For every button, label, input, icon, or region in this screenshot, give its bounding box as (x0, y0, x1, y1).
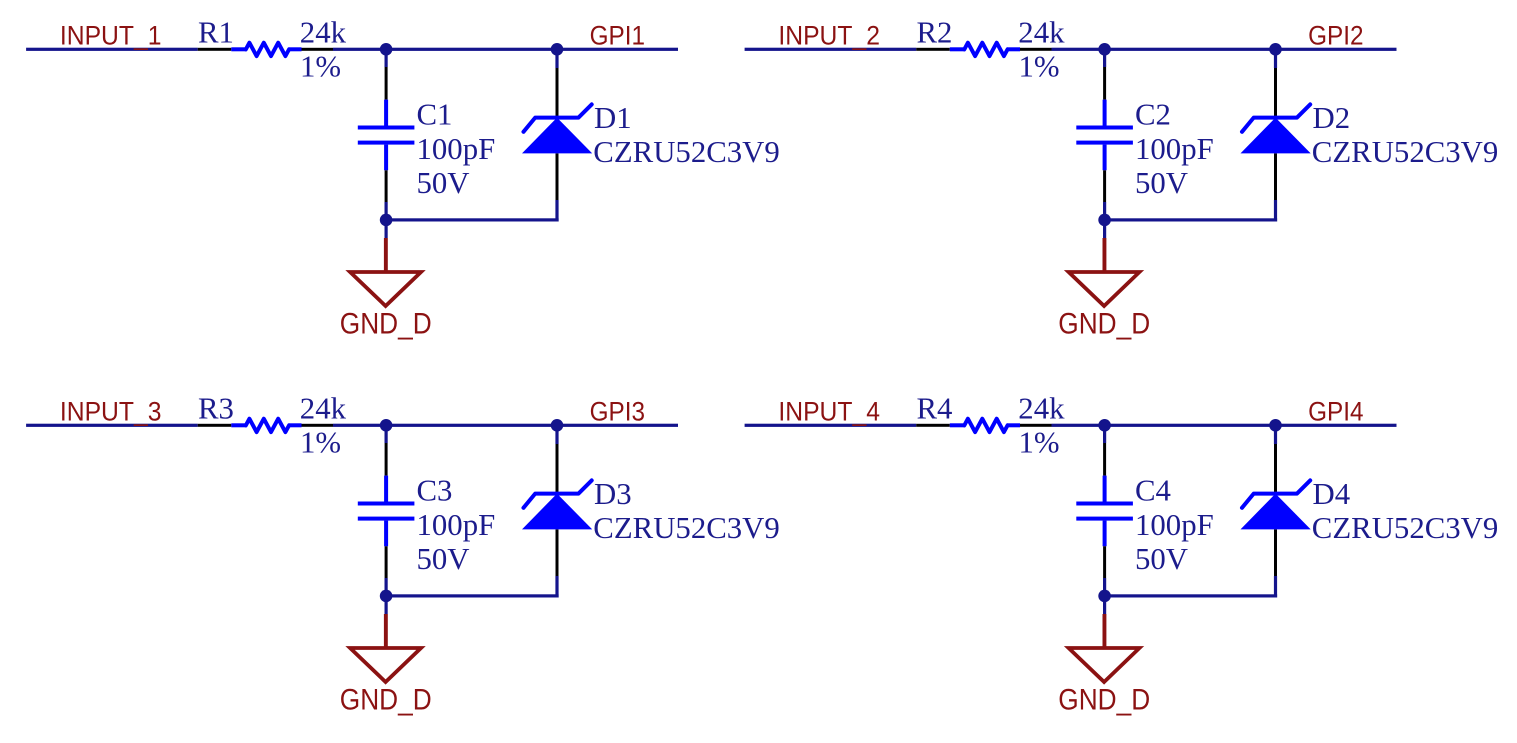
ground power port GND_D (340, 238, 432, 340)
junction ground node (1098, 590, 1111, 603)
wire C3 to ground node (385, 578, 388, 596)
svg-text:C3: C3 (417, 474, 453, 508)
wire D1 to ground wire (555, 200, 558, 222)
resistor R1 24k (198, 43, 333, 56)
R4 designator (917, 392, 953, 426)
svg-text:INPUT_4: INPUT_4 (778, 398, 880, 427)
svg-text:INPUT_3: INPUT_3 (60, 398, 162, 427)
wire node to C4 (1103, 425, 1106, 443)
R3 designator (198, 392, 234, 426)
svg-text:24k: 24k (1018, 392, 1065, 426)
svg-text:D1: D1 (594, 101, 632, 135)
wire ground node to GND_D port (385, 596, 388, 614)
svg-text:CZRU52C3V9: CZRU52C3V9 (1312, 511, 1499, 545)
wire D2 to ground wire (1274, 200, 1277, 222)
D2 designator (1313, 101, 1351, 135)
D2 value CZRU52C3V9 (1312, 135, 1499, 169)
capacitor C4 100pF (1076, 443, 1133, 578)
R4 value 24k (1018, 392, 1065, 426)
junction C3 tap (380, 419, 393, 432)
C2 rating 50V (1135, 166, 1188, 200)
junction ground node (380, 214, 393, 227)
D4 designator (1313, 477, 1351, 511)
R2 value 24k (1018, 16, 1065, 50)
svg-text:GPI3: GPI3 (590, 397, 645, 426)
wire ground node to D4 anode (1105, 594, 1278, 597)
svg-text:50V: 50V (1135, 166, 1188, 200)
net label GPI1 (590, 21, 645, 50)
svg-text:24k: 24k (300, 392, 347, 426)
wire node to C3 (385, 425, 388, 443)
ground power port GND_D (1058, 614, 1150, 716)
wire C4 to ground node (1103, 578, 1106, 596)
C2 value 100pF (1135, 132, 1214, 166)
svg-text:50V: 50V (417, 166, 470, 200)
wire node to D3 (555, 425, 558, 444)
svg-text:24k: 24k (1018, 16, 1065, 50)
junction C2 tap (1098, 43, 1111, 56)
wire ground node to GND_D port (1103, 220, 1106, 238)
svg-text:D4: D4 (1313, 477, 1351, 511)
wire node to D2 (1274, 49, 1277, 68)
wire node to node (386, 424, 557, 427)
net label GPI4 (1308, 397, 1363, 426)
wire node to GPI3 (557, 424, 678, 427)
R2 designator (917, 16, 953, 50)
junction ground node (1098, 214, 1111, 227)
wire D3 to ground wire (555, 576, 558, 598)
wire ground node to D2 anode (1105, 218, 1278, 221)
junction D4 tap (1269, 419, 1282, 432)
D4 value CZRU52C3V9 (1312, 511, 1499, 545)
wire R2 to node (1052, 48, 1105, 51)
zener diode D3 CZRU52C3V9 (522, 444, 592, 576)
C1 rating 50V (417, 166, 470, 200)
net label INPUT_4 (778, 398, 880, 427)
zener diode D1 CZRU52C3V9 (522, 68, 592, 200)
R2 tolerance 1% (1019, 50, 1060, 84)
wire C1 to ground node (385, 202, 388, 220)
svg-text:1%: 1% (300, 50, 341, 84)
wire ground node to D3 anode (386, 594, 558, 597)
wire node to GPI4 (1276, 424, 1397, 427)
svg-text:GPI4: GPI4 (1308, 397, 1363, 426)
svg-text:100pF: 100pF (417, 508, 496, 542)
svg-text:CZRU52C3V9: CZRU52C3V9 (593, 135, 780, 169)
svg-text:GND_D: GND_D (1058, 306, 1150, 340)
D3 designator (594, 477, 632, 511)
R1 designator (198, 16, 234, 50)
wire node to node (1105, 48, 1276, 51)
C4 designator (1135, 474, 1171, 508)
svg-text:1%: 1% (1019, 426, 1060, 460)
wire C2 to ground node (1103, 202, 1106, 220)
resistor R3 24k (198, 419, 333, 432)
wire INPUT_3 to R3 (26, 424, 198, 427)
svg-text:C2: C2 (1135, 98, 1171, 132)
C3 designator (417, 474, 453, 508)
D1 designator (594, 101, 632, 135)
junction D1 tap (551, 43, 564, 56)
ground power port GND_D (1058, 238, 1150, 340)
svg-text:GND_D: GND_D (340, 306, 432, 340)
junction C4 tap (1098, 419, 1111, 432)
svg-text:INPUT_1: INPUT_1 (60, 22, 162, 51)
capacitor C3 100pF (358, 443, 415, 578)
C3 value 100pF (417, 508, 496, 542)
svg-text:C4: C4 (1135, 474, 1171, 508)
svg-text:GPI2: GPI2 (1308, 21, 1363, 50)
svg-text:24k: 24k (300, 16, 347, 50)
resistor R2 24k (916, 43, 1051, 56)
svg-text:R4: R4 (917, 392, 953, 426)
wire D4 to ground wire (1274, 576, 1277, 598)
ground power port GND_D (340, 614, 432, 716)
net label GPI3 (590, 397, 645, 426)
D3 value CZRU52C3V9 (593, 511, 780, 545)
wire ground node to GND_D port (1103, 596, 1106, 614)
junction D2 tap (1269, 43, 1282, 56)
wire INPUT_1 to R1 (26, 48, 198, 51)
svg-text:50V: 50V (1135, 542, 1188, 576)
svg-text:50V: 50V (417, 542, 470, 576)
svg-text:D2: D2 (1313, 101, 1351, 135)
C4 rating 50V (1135, 542, 1188, 576)
svg-text:GND_D: GND_D (340, 682, 432, 716)
svg-text:R2: R2 (917, 16, 953, 50)
zener diode D2 CZRU52C3V9 (1241, 68, 1311, 200)
wire node to node (386, 48, 557, 51)
wire ground node to D1 anode (386, 218, 558, 221)
wire ground node to GND_D port (385, 220, 388, 238)
wire node to D1 (555, 49, 558, 68)
wire R3 to node (333, 424, 386, 427)
junction C1 tap (380, 43, 393, 56)
capacitor C2 100pF (1076, 67, 1133, 202)
capacitor C1 100pF (358, 67, 415, 202)
R1 tolerance 1% (300, 50, 341, 84)
wire node to C2 (1103, 49, 1106, 67)
svg-text:CZRU52C3V9: CZRU52C3V9 (1312, 135, 1499, 169)
wire node to node (1105, 424, 1276, 427)
wire node to D4 (1274, 425, 1277, 444)
net label INPUT_3 (60, 398, 162, 427)
net label INPUT_1 (60, 22, 162, 51)
wire node to C1 (385, 49, 388, 67)
C2 designator (1135, 98, 1171, 132)
net label INPUT_2 (778, 22, 880, 51)
zener diode D4 CZRU52C3V9 (1241, 444, 1311, 576)
junction D3 tap (551, 419, 564, 432)
svg-text:1%: 1% (1019, 50, 1060, 84)
junction ground node (380, 590, 393, 603)
wire R4 to node (1052, 424, 1105, 427)
svg-text:1%: 1% (300, 426, 341, 460)
svg-text:R1: R1 (198, 16, 234, 50)
svg-text:100pF: 100pF (1135, 132, 1214, 166)
wire node to GPI1 (557, 48, 678, 51)
svg-text:C1: C1 (417, 98, 453, 132)
C3 rating 50V (417, 542, 470, 576)
svg-text:INPUT_2: INPUT_2 (778, 22, 880, 51)
resistor R4 24k (916, 419, 1051, 432)
svg-text:CZRU52C3V9: CZRU52C3V9 (593, 511, 780, 545)
C4 value 100pF (1135, 508, 1214, 542)
wire INPUT_2 to R2 (745, 48, 917, 51)
svg-text:100pF: 100pF (417, 132, 496, 166)
svg-text:D3: D3 (594, 477, 632, 511)
wire R1 to node (333, 48, 386, 51)
D1 value CZRU52C3V9 (593, 135, 780, 169)
net label GPI2 (1308, 21, 1363, 50)
svg-text:100pF: 100pF (1135, 508, 1214, 542)
C1 value 100pF (417, 132, 496, 166)
R3 tolerance 1% (300, 426, 341, 460)
svg-text:GND_D: GND_D (1058, 682, 1150, 716)
wire INPUT_4 to R4 (745, 424, 917, 427)
C1 designator (417, 98, 453, 132)
R3 value 24k (300, 392, 347, 426)
wire node to GPI2 (1276, 48, 1397, 51)
R1 value 24k (300, 16, 347, 50)
svg-text:R3: R3 (198, 392, 234, 426)
svg-text:GPI1: GPI1 (590, 21, 645, 50)
R4 tolerance 1% (1019, 426, 1060, 460)
